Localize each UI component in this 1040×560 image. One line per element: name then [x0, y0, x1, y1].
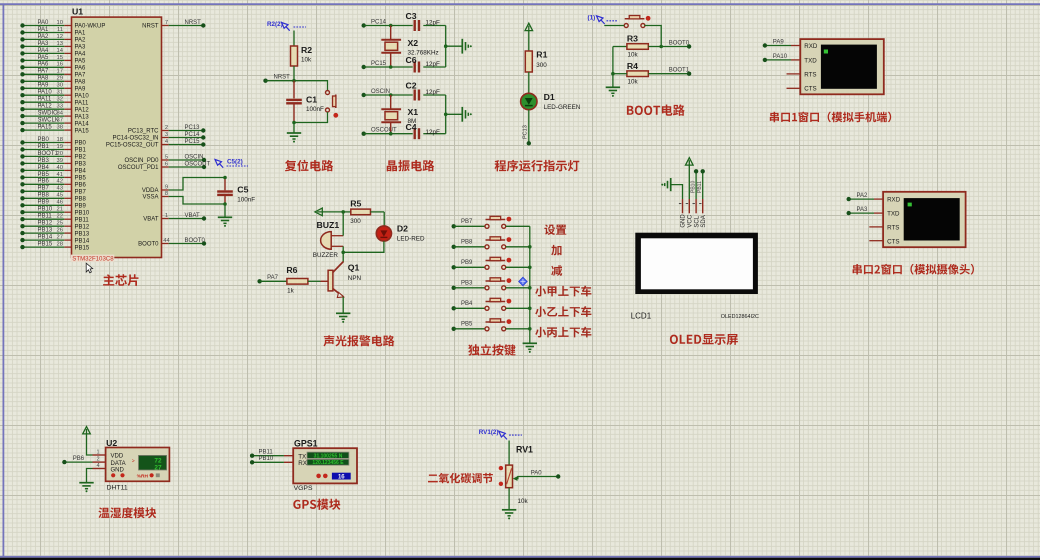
U1 pin 41 PB5 / wire PB5 with terminal	[64, 176, 71, 178]
svg-text:PB13: PB13	[38, 228, 53, 234]
svg-text:GND: GND	[681, 214, 687, 228]
svg-text:4: 4	[97, 463, 100, 469]
svg-text:22: 22	[57, 214, 63, 220]
svg-text:%RH: %RH	[137, 474, 149, 480]
U2 pin 2 DATA / wire PB6 with terminal	[93, 461, 106, 463]
svg-text:30: 30	[57, 83, 63, 89]
svg-text:PA4: PA4	[38, 48, 50, 54]
reset push button	[335, 95, 337, 109]
led D2 LED-RED	[376, 226, 391, 241]
svg-text:16: 16	[338, 474, 345, 480]
wire BOOT1 with terminal	[687, 72, 691, 76]
svg-text:100nF: 100nF	[306, 106, 324, 113]
U1 pin 7 NRST / wire NRST with terminal	[162, 25, 169, 27]
key label 加	[551, 245, 561, 256]
annotation 主芯片 main chip	[103, 274, 138, 286]
wire RV1 to ground	[508, 488, 510, 510]
DHT11 green display 72 27	[139, 455, 167, 470]
svg-text:10k: 10k	[628, 79, 639, 86]
svg-text:PA7: PA7	[38, 69, 50, 75]
svg-text:BUZ1: BUZ1	[317, 220, 340, 230]
svg-text:OSCOUT: OSCOUT	[371, 128, 397, 134]
svg-text:Q1: Q1	[348, 263, 360, 273]
led D1 LED-GREEN	[521, 93, 537, 109]
wire D1 to PC13 terminal	[528, 110, 530, 144]
svg-text:PC14-OSC32_IN: PC14-OSC32_IN	[112, 136, 158, 142]
svg-text:GPS1: GPS1	[294, 438, 318, 448]
svg-text:PB9: PB9	[75, 204, 87, 210]
svg-text:10k: 10k	[518, 498, 529, 505]
svg-text:(1): (1)	[588, 15, 596, 22]
svg-text:LED-RED: LED-RED	[397, 235, 425, 242]
svg-text:2: 2	[97, 456, 100, 462]
module GPS1 body	[293, 448, 357, 483]
svg-text:BOOT1: BOOT1	[38, 151, 59, 157]
wire NRST terminal	[263, 79, 267, 83]
wire top of RV1	[508, 441, 510, 466]
svg-text:39: 39	[57, 158, 63, 164]
svg-text:PA2: PA2	[38, 34, 50, 40]
wire emitter to ground	[342, 297, 344, 314]
svg-text:PB8: PB8	[75, 197, 87, 203]
svg-text:VSSA: VSSA	[142, 195, 158, 201]
svg-text:PA12: PA12	[38, 104, 53, 110]
potentiometer RV1 10k	[506, 465, 513, 488]
VT2 pin RTS stub	[869, 226, 883, 228]
svg-text:PA2: PA2	[857, 193, 869, 199]
VT2 pin RXD / wire PA2 with terminal	[874, 198, 883, 200]
svg-text:NRST: NRST	[142, 24, 159, 30]
svg-text:12pF: 12pF	[426, 19, 441, 26]
svg-text:300: 300	[350, 218, 361, 225]
wire SCL with terminal	[695, 171, 697, 199]
svg-text:BUZZER: BUZZER	[313, 252, 339, 259]
svg-text:PB3: PB3	[38, 158, 50, 164]
svg-text:X1: X1	[408, 107, 419, 117]
svg-text:42: 42	[57, 179, 63, 185]
ground of X1 block	[461, 107, 463, 122]
svg-text:PB5: PB5	[38, 172, 50, 178]
svg-text:R1: R1	[536, 50, 547, 60]
title 独立按键 independent keys	[468, 344, 515, 356]
key label 小甲上下车	[535, 286, 591, 297]
resistor R6 1k	[287, 279, 308, 285]
svg-text:PA9: PA9	[773, 39, 785, 45]
U1 pin 5 OSCIN_PD0 / wire OSCIN with terminal	[162, 159, 169, 161]
buzzer BUZ1	[321, 232, 332, 250]
svg-text:3: 3	[165, 132, 168, 138]
svg-text:OSCIN: OSCIN	[371, 89, 390, 95]
svg-text:LED-GREEN: LED-GREEN	[544, 104, 581, 111]
svg-text:PA6: PA6	[38, 62, 50, 68]
svg-text:PA12: PA12	[75, 107, 90, 113]
resistor R2 10k	[291, 46, 298, 66]
svg-text:120.123456 E: 120.123456 E	[312, 460, 344, 466]
svg-text:20: 20	[57, 151, 63, 157]
svg-text:SCL: SCL	[694, 215, 700, 227]
ground of reset circuit	[287, 132, 301, 134]
svg-text:PA5: PA5	[38, 55, 50, 61]
key button row PB8	[452, 245, 456, 249]
GPS adjust dots	[316, 474, 321, 479]
svg-text:27: 27	[57, 235, 63, 241]
svg-text:RTS: RTS	[887, 225, 899, 232]
U1 pin 38 PA15 / wire PA15 with terminal	[64, 129, 71, 131]
svg-text:12pF: 12pF	[426, 129, 441, 136]
wire power to R5 node	[322, 211, 343, 213]
ground of DHT11	[79, 482, 93, 484]
svg-text:PB8: PB8	[38, 193, 50, 199]
svg-text:PA10: PA10	[38, 90, 53, 96]
svg-text:45: 45	[57, 193, 63, 199]
svg-text:U1: U1	[72, 7, 83, 17]
title 串口1窗口（模拟手机端）	[770, 112, 891, 123]
transistor Q1 NPN	[342, 252, 344, 262]
svg-text:RXD: RXD	[887, 197, 901, 204]
svg-text:>: >	[132, 458, 135, 464]
svg-text:PC14: PC14	[185, 132, 201, 138]
key button row PB9	[452, 265, 456, 269]
U1 pin 17 PA7 / wire PA7 with terminal	[64, 73, 71, 75]
key label 小乙上下车	[535, 306, 591, 317]
svg-text:PA2: PA2	[75, 38, 87, 44]
key button row PB5	[452, 327, 456, 331]
svg-text:PB6: PB6	[75, 183, 87, 189]
ground of keys	[523, 342, 537, 344]
OLED power arrow VCC	[686, 158, 694, 165]
wire SDA with terminal	[702, 171, 704, 199]
wire rail to X1 ground	[446, 113, 463, 115]
svg-text:DATA: DATA	[111, 461, 126, 467]
VT2 pin CTS stub	[869, 240, 883, 242]
svg-text:PB15: PB15	[75, 245, 90, 251]
node C1 bottom junction	[292, 121, 296, 125]
svg-text:NPN: NPN	[348, 275, 362, 282]
sensor U2 DHT11 body	[106, 448, 170, 482]
svg-text:PB9: PB9	[461, 260, 473, 266]
svg-text:PB1: PB1	[38, 144, 50, 150]
svg-text:7: 7	[165, 20, 168, 26]
U1 pin 33 PA12 / wire PA12 with terminal	[64, 108, 71, 110]
svg-text:VBAT: VBAT	[143, 217, 159, 223]
node R5 left junction	[341, 210, 345, 214]
svg-text:PB12: PB12	[75, 224, 90, 230]
DHT11 adjust dots and %RH label	[111, 473, 115, 477]
svg-text:R4: R4	[627, 61, 638, 71]
U1 pin 12 PA2 / wire PA2 with terminal	[64, 38, 71, 40]
svg-text:PB3: PB3	[75, 162, 87, 168]
wire PA7 with terminal	[257, 279, 261, 283]
wire buzzer bottom pin to collector node	[342, 246, 344, 252]
svg-text:31: 31	[57, 90, 63, 96]
svg-text:PA14: PA14	[75, 121, 90, 127]
svg-text:PA10: PA10	[773, 54, 788, 60]
svg-text:OSCIN: OSCIN	[185, 154, 204, 160]
GPS green display coordinates	[307, 452, 349, 458]
resistor R4 10k	[627, 71, 648, 77]
key label 小丙上下车	[535, 327, 591, 338]
svg-text:43: 43	[57, 186, 63, 192]
U1 pin 34 PA13 / wire SWDIO with terminal	[64, 115, 71, 117]
svg-text:21: 21	[57, 207, 63, 213]
svg-text:100nF: 100nF	[237, 197, 255, 204]
selection marker diamond	[519, 277, 527, 285]
U1 pin 29 PA8 / wire PA8 with terminal	[64, 80, 71, 82]
svg-text:PB0: PB0	[38, 137, 50, 143]
svg-text:RXD: RXD	[804, 43, 818, 50]
svg-text:R5: R5	[350, 199, 361, 209]
svg-text:X2: X2	[408, 38, 419, 48]
title 复位电路 reset circuit	[285, 160, 333, 172]
svg-text:PB10: PB10	[38, 207, 53, 213]
svg-text:PB14: PB14	[75, 238, 90, 244]
wire X1 right rail	[445, 95, 447, 134]
RV1 wiper / wire PA0 with terminal	[513, 476, 518, 481]
svg-text:BOOT0: BOOT0	[138, 242, 159, 248]
svg-text:PB7: PB7	[461, 219, 473, 225]
svg-text:PB2: PB2	[75, 155, 87, 161]
svg-text:PB1: PB1	[75, 148, 87, 154]
svg-text:PB8: PB8	[461, 240, 473, 246]
svg-text:11: 11	[57, 27, 63, 33]
svg-text:SDA: SDA	[701, 215, 707, 227]
svg-text:1k: 1k	[287, 287, 295, 294]
svg-text:VDD: VDD	[111, 454, 124, 460]
U1 pin 42 PB6 / wire PB6 with terminal	[64, 183, 71, 185]
svg-text:12pF: 12pF	[426, 61, 441, 68]
VT2 pin TXD / wire PA3 with terminal	[874, 212, 883, 214]
svg-text:PA13: PA13	[75, 114, 90, 120]
wire power to R1	[528, 31, 530, 51]
svg-text:NRST: NRST	[185, 20, 202, 26]
svg-text:PA6: PA6	[75, 66, 87, 72]
svg-text:14: 14	[57, 48, 64, 54]
svg-text:PB4: PB4	[38, 165, 50, 171]
svg-text:RV1(2): RV1(2)	[479, 429, 499, 436]
wire R1 to D1	[528, 72, 530, 93]
svg-text:5: 5	[165, 154, 168, 160]
RV1 adjust dots	[499, 466, 503, 470]
GPS blue speed box 16	[332, 473, 351, 480]
svg-text:C3: C3	[406, 11, 417, 21]
svg-text:PB5: PB5	[461, 322, 473, 328]
svg-text:STM32F103C8: STM32F103C8	[72, 256, 114, 263]
svg-text:PB7: PB7	[38, 186, 50, 192]
virtual terminal serial window 2 body	[883, 192, 966, 247]
svg-text:34: 34	[57, 111, 64, 117]
svg-text:RX: RX	[298, 460, 308, 467]
svg-text:13: 13	[57, 41, 63, 47]
ground below C5	[218, 216, 232, 218]
U1 pin 22 PB11 / wire PB11 with terminal	[64, 218, 71, 220]
svg-text:VDDA: VDDA	[142, 188, 159, 194]
svg-text:PC13: PC13	[185, 125, 201, 131]
capacitor C2 12pF	[414, 90, 416, 101]
wire NRST node to reset button	[294, 81, 328, 91]
svg-text:PB10: PB10	[691, 181, 697, 193]
wire button left stub	[604, 25, 624, 27]
svg-text:PA0-WKUP: PA0-WKUP	[75, 24, 106, 30]
svg-text:D1: D1	[544, 92, 555, 102]
key button row PB4	[452, 306, 456, 310]
U1 pin 13 PA3 / wire PA3 with terminal	[64, 45, 71, 47]
U1 pin 4 PC15-OSC32_OUT / wire PC15 with terminal	[162, 144, 169, 146]
VT1 pin CTS stub	[787, 87, 801, 89]
U1 pin 37 PA14 / wire SWCLK with terminal	[64, 122, 71, 124]
svg-text:10k: 10k	[628, 51, 639, 58]
title 声光报警电路 alarm circuit	[323, 335, 394, 346]
svg-text:27: 27	[154, 464, 162, 471]
svg-text:6: 6	[165, 161, 168, 167]
virtual terminal serial window 1 body	[800, 39, 884, 94]
wire R2 to NRST node	[293, 66, 295, 81]
svg-text:PA11: PA11	[38, 97, 52, 103]
svg-text:PB13: PB13	[75, 231, 90, 237]
wire PC14 with terminal	[362, 23, 366, 27]
svg-text:OLED12864I2C: OLED12864I2C	[721, 314, 759, 320]
svg-text:VGPS: VGPS	[294, 485, 313, 492]
svg-text:PB7: PB7	[75, 190, 87, 196]
key button row PB7	[452, 224, 456, 228]
svg-text:PA10: PA10	[75, 93, 90, 99]
svg-text:1: 1	[165, 213, 168, 219]
wire R3 left rail down	[612, 47, 614, 74]
svg-text:17: 17	[57, 69, 63, 75]
svg-text:PB6: PB6	[38, 179, 50, 185]
svg-text:40: 40	[57, 165, 63, 171]
svg-text:TXD: TXD	[887, 211, 900, 218]
svg-text:CTS: CTS	[887, 238, 899, 245]
svg-text:CTS: CTS	[804, 86, 816, 93]
svg-text:44: 44	[163, 238, 170, 244]
key label 减	[551, 265, 562, 276]
node BOOT0 junction	[659, 45, 663, 49]
node X1 bottom junction	[389, 132, 393, 136]
crystal X2 32.768KHz	[390, 26, 392, 40]
wire OSCOUT with terminal	[362, 132, 366, 136]
power arrow left of R5	[315, 208, 322, 216]
wire button to BOOT0 node	[644, 26, 661, 47]
svg-text:19: 19	[57, 144, 63, 150]
svg-text:PC13_RTC: PC13_RTC	[128, 129, 159, 135]
U1 pin 18 PB0 / wire PB0 with terminal	[64, 142, 71, 144]
svg-text:PB11: PB11	[697, 181, 703, 193]
svg-text:BOOT0: BOOT0	[669, 40, 690, 46]
svg-text:GND: GND	[111, 467, 125, 473]
U1 pin 2 PC13_RTC / wire PC13 with terminal	[162, 130, 169, 132]
svg-text:C6: C6	[406, 55, 417, 65]
boot select push button	[625, 18, 645, 20]
svg-text:37: 37	[57, 118, 63, 124]
svg-text:PA8: PA8	[75, 80, 87, 86]
U1 pin 30 PA9 / wire PA9 with terminal	[64, 87, 71, 89]
display LCD1 OLED12864I2C body	[635, 233, 758, 294]
U1 pin 26 PB13 / wire PB13 with terminal	[64, 232, 71, 234]
U1 pin 16 PA6 / wire PA6 with terminal	[64, 66, 71, 68]
svg-text:PB4: PB4	[75, 169, 87, 175]
svg-text:PB14: PB14	[38, 235, 53, 241]
U1 pin 40 PB4 / wire PB4 with terminal	[64, 169, 71, 171]
U1 pin 27 PB14 / wire PB14 with terminal	[64, 239, 71, 241]
wire button to C1 bottom node	[294, 112, 328, 123]
svg-text:PB12: PB12	[38, 221, 53, 227]
capacitor C6 12pF	[414, 62, 416, 73]
svg-text:RTS: RTS	[804, 71, 816, 78]
svg-text:PC14: PC14	[371, 20, 387, 26]
title 串口2窗口（模拟摄像头）	[853, 264, 974, 275]
svg-text:OSCOUT: OSCOUT	[185, 161, 211, 167]
svg-text:LCD1: LCD1	[631, 311, 652, 320]
svg-text:PB4: PB4	[461, 301, 473, 307]
svg-text:12: 12	[57, 34, 63, 40]
svg-text:15: 15	[57, 55, 63, 61]
svg-text:PC15: PC15	[371, 61, 387, 67]
svg-text:PB3: PB3	[461, 281, 473, 287]
svg-text:12pF: 12pF	[426, 89, 441, 96]
resistor R1 300	[525, 51, 532, 72]
svg-text:PA5: PA5	[75, 59, 87, 65]
svg-text:BOOT0: BOOT0	[185, 238, 206, 244]
U1 pin 21 PB10 / wire PB10 with terminal	[64, 211, 71, 213]
svg-text:DHT11: DHT11	[107, 485, 128, 492]
svg-text:OSCIN_PD0: OSCIN_PD0	[124, 158, 159, 164]
svg-text:32: 32	[57, 97, 63, 103]
node X2 top junction	[389, 24, 393, 28]
VT1 pin TXD / wire PA10 with terminal	[791, 59, 800, 61]
svg-text:PB11: PB11	[259, 449, 274, 455]
U1 pin 32 PA11 / wire PA11 with terminal	[64, 101, 71, 103]
svg-text:PA4: PA4	[75, 52, 87, 58]
U1 pin 39 PB3 / wire PB3 with terminal	[64, 162, 71, 164]
svg-text:38: 38	[57, 125, 63, 131]
svg-text:18: 18	[57, 137, 63, 143]
wire BOOT0 with terminal	[661, 46, 689, 48]
ground of alarm circuit	[336, 312, 350, 314]
key label 设置	[544, 224, 566, 235]
node X2 bottom junction	[389, 65, 393, 69]
wire R5 node to buzzer top pin	[342, 212, 344, 236]
svg-text:10: 10	[57, 20, 63, 26]
svg-text:PA0: PA0	[531, 470, 543, 476]
U1 pin 20 PB2 / wire BOOT1 with terminal	[64, 155, 71, 157]
svg-text:PB6: PB6	[73, 456, 85, 462]
svg-text:PA15: PA15	[38, 125, 53, 131]
svg-text:41: 41	[57, 172, 63, 178]
svg-text:C2: C2	[406, 81, 417, 91]
svg-text:PA3: PA3	[38, 41, 50, 47]
VT1 pin RXD / wire PA9 with terminal	[791, 45, 800, 47]
svg-text:26: 26	[57, 228, 63, 234]
U2 pin 1 VDD	[93, 454, 106, 456]
svg-text:PB0: PB0	[75, 141, 87, 147]
svg-text:C5(2): C5(2)	[227, 159, 243, 166]
svg-text:PA7: PA7	[75, 73, 87, 79]
svg-text:25: 25	[57, 221, 63, 227]
capacitor C1 100nF	[293, 81, 295, 99]
svg-text:PA7: PA7	[267, 275, 279, 281]
mouse hand cursor	[86, 263, 93, 273]
OLED pins GND VCC SCL SDA	[682, 199, 684, 213]
U1 pin 46 PB9 / wire PB9 with terminal	[64, 204, 71, 206]
title 二氧化碳调节 CO2 adjust	[428, 473, 493, 483]
svg-text:10k: 10k	[301, 57, 312, 64]
svg-text:PA8: PA8	[38, 76, 50, 82]
svg-text:C1: C1	[306, 95, 317, 105]
svg-text:300: 300	[536, 62, 547, 69]
svg-text:D2: D2	[397, 223, 408, 233]
svg-text:PA1: PA1	[38, 27, 50, 33]
wire X2 right rail	[445, 26, 447, 68]
